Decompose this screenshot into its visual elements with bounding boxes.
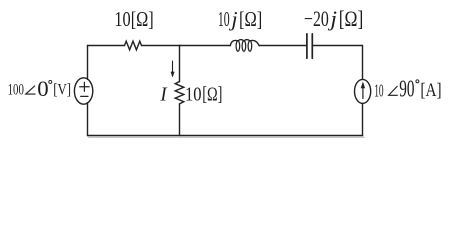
degree mark for A label	[416, 80, 419, 83]
svg-text:[Ω]: [Ω]	[339, 6, 364, 31]
current source I1 circle	[355, 79, 371, 103]
inductor L1 lead arcs	[230, 40, 259, 46]
wire node A to inductor	[180, 45, 231, 47]
wire right branch upper	[362, 46, 364, 80]
wire right branch lower	[362, 103, 364, 135]
svg-text:10[Ω]: 10[Ω]	[114, 7, 153, 31]
svg-text:[A]: [A]	[420, 80, 441, 101]
inductor L1 loop 1	[236, 41, 240, 51]
current source I1 arrow	[361, 83, 365, 99]
label 10j[ohm] inductor	[218, 7, 262, 31]
svg-text:−20: −20	[304, 6, 329, 31]
degree mark for V label	[49, 80, 52, 83]
capacitor C1 left plate	[306, 34, 308, 59]
node A junction	[179, 45, 181, 48]
wire middle branch upper	[179, 46, 181, 82]
capacitor C1 right plate	[311, 34, 313, 59]
wire middle branch lower	[179, 104, 181, 136]
svg-text:10: 10	[218, 7, 230, 31]
voltage source V1 circle	[74, 78, 92, 104]
svg-text:100: 100	[8, 81, 24, 98]
label 10[ohm] middle resistor	[185, 83, 222, 105]
svg-text:90: 90	[399, 77, 414, 103]
label 100 angle 0 [V] voltage source	[8, 76, 71, 101]
voltage source V1 minus sign	[81, 95, 88, 97]
svg-text:0: 0	[37, 76, 48, 101]
voltage source V1 plus sign	[80, 82, 89, 96]
svg-text:[V]: [V]	[53, 81, 71, 98]
current I direction arrow	[171, 61, 174, 77]
wire resistor to node A	[142, 45, 180, 47]
wire left branch upper	[87, 46, 89, 80]
wire left branch lower	[87, 103, 89, 136]
wire inductor to capacitor	[259, 45, 306, 47]
svg-text:I: I	[159, 84, 167, 106]
resistor R1 (10 ohm, top)	[125, 41, 142, 50]
inductor L1 loop 3	[248, 41, 252, 51]
angle symbol for V label	[26, 86, 36, 94]
inductor L1 loop 2	[242, 41, 246, 51]
label -20j[ohm] capacitor	[304, 6, 363, 31]
wire top-left segment	[88, 45, 125, 47]
wire capacitor to top-right corner	[313, 45, 363, 47]
angle symbol for A label	[389, 86, 398, 95]
svg-text:10: 10	[374, 80, 384, 100]
wire bottom scan shadow	[89, 136, 365, 138]
label 10 angle 90 [A] current source	[374, 77, 441, 103]
svg-text:10: 10	[185, 83, 202, 105]
svg-text:[Ω]: [Ω]	[202, 83, 222, 105]
svg-text:[Ω]: [Ω]	[239, 7, 262, 31]
resistor R2 (10 ohm, middle)	[175, 82, 184, 104]
wire bottom	[88, 135, 363, 137]
